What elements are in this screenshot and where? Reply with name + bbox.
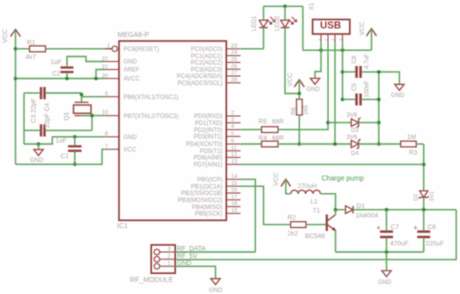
svg-text:MEGA8-P: MEGA8-P bbox=[118, 32, 150, 39]
svg-text:PB2(SS/OC1B): PB2(SS/OC1B) bbox=[181, 191, 222, 197]
svg-text:PD0(RXD): PD0(RXD) bbox=[194, 114, 222, 120]
power VCC symbol (charge pump) bbox=[273, 172, 291, 194]
node junction D+ row bbox=[333, 142, 337, 146]
svg-text:27: 27 bbox=[231, 71, 237, 77]
resistor R6 1k5 bbox=[292, 94, 310, 145]
wire XTAL2 (pin10) bbox=[82, 115, 106, 117]
node junction XTAL2-C4 bbox=[90, 114, 94, 118]
svg-text:C8: C8 bbox=[352, 55, 358, 63]
inductor L1 270uH bbox=[291, 183, 321, 206]
wire PD7 to right column bbox=[241, 163, 424, 165]
diode D1 1N4004 bbox=[336, 203, 457, 219]
svg-text:C3 22pF: C3 22pF bbox=[31, 98, 38, 123]
svg-text:PB6(XTAL1/TOSC1): PB6(XTAL1/TOSC1) bbox=[124, 95, 179, 101]
svg-text:PD1(TXD): PD1(TXD) bbox=[195, 121, 223, 127]
svg-text:12: 12 bbox=[231, 152, 237, 158]
pin 1 inversion circle bbox=[112, 46, 117, 51]
pin names left bbox=[124, 47, 179, 154]
svg-text:1: 1 bbox=[107, 43, 110, 49]
node junctions C8/C5 left bbox=[341, 70, 345, 74]
pin numbers left bbox=[102, 43, 110, 149]
svg-text:GND: GND bbox=[307, 87, 321, 93]
svg-text:3: 3 bbox=[231, 117, 234, 123]
svg-text:9: 9 bbox=[105, 91, 108, 97]
wire emitter ground rail bbox=[336, 251, 424, 253]
wire L1 to collector node bbox=[320, 194, 335, 210]
svg-text:470uF: 470uF bbox=[390, 240, 408, 247]
svg-text:RF_MODULE: RF_MODULE bbox=[130, 277, 174, 284]
pin numbers right bbox=[231, 43, 237, 214]
capacitor C5 100nF bbox=[343, 80, 379, 105]
node junction LED2 top bbox=[283, 5, 287, 9]
svg-text:100nF: 100nF bbox=[365, 80, 371, 97]
svg-text:PB3(MOSI/OC2): PB3(MOSI/OC2) bbox=[178, 198, 223, 204]
svg-text:RF_DATA: RF_DATA bbox=[177, 246, 206, 253]
wire pin23 to LED1 bbox=[241, 48, 264, 50]
svg-text:R6: R6 bbox=[292, 107, 298, 115]
svg-text:2: 2 bbox=[168, 254, 171, 260]
svg-text:PD5(T1): PD5(T1) bbox=[200, 149, 223, 155]
resistor R2 2k2 bbox=[288, 215, 327, 238]
svg-text:PD4(XCK/T0): PD4(XCK/T0) bbox=[186, 142, 223, 148]
svg-text:8: 8 bbox=[105, 131, 108, 137]
wire VCC main left vertical bbox=[15, 31, 17, 165]
ground symbol (RF module) bbox=[209, 279, 223, 294]
svg-text:PD2(INT0): PD2(INT0) bbox=[194, 128, 223, 134]
wire AREF drop bbox=[96, 70, 105, 79]
svg-text:4: 4 bbox=[231, 124, 234, 130]
resistor R3 1M bbox=[401, 134, 424, 157]
svg-text:25: 25 bbox=[231, 57, 237, 63]
svg-text:GND: GND bbox=[177, 260, 192, 267]
svg-text:22: 22 bbox=[102, 56, 108, 62]
node junction D- row bbox=[326, 121, 330, 125]
svg-text:Charge pump: Charge pump bbox=[322, 175, 365, 182]
wire PB0 to RF_DATA bbox=[241, 179, 256, 252]
svg-text:VCC: VCC bbox=[273, 172, 280, 186]
svg-text:C5: C5 bbox=[352, 83, 358, 91]
svg-text:PD6(AIN0): PD6(AIN0) bbox=[193, 156, 222, 162]
svg-text:GND: GND bbox=[378, 280, 392, 286]
svg-text:Q1: Q1 bbox=[64, 111, 71, 120]
svg-text:15: 15 bbox=[231, 181, 237, 187]
wire AVCC/AREF rail bbox=[16, 78, 106, 80]
svg-text:68R: 68R bbox=[272, 135, 284, 142]
svg-text:5: 5 bbox=[231, 131, 234, 137]
svg-text:PB5(SCK): PB5(SCK) bbox=[195, 212, 223, 218]
svg-text:14: 14 bbox=[231, 174, 237, 180]
svg-text:19: 19 bbox=[231, 208, 237, 214]
svg-text:USB: USB bbox=[320, 21, 341, 32]
svg-text:+: + bbox=[414, 225, 418, 232]
ground symbol (caps) bbox=[391, 84, 405, 99]
capacitor C7 470uF bbox=[377, 210, 409, 252]
wire XTAL1 (pin9) bbox=[82, 96, 106, 98]
node junction VBUS rail bbox=[319, 48, 323, 52]
svg-text:2k2: 2k2 bbox=[288, 231, 299, 238]
wire output loop to RF_5V bbox=[175, 210, 456, 260]
svg-text:LED1: LED1 bbox=[252, 15, 258, 31]
svg-text:T1: T1 bbox=[313, 208, 321, 215]
pin stubs right bbox=[226, 49, 240, 214]
svg-text:R2: R2 bbox=[288, 215, 297, 222]
svg-text:PB1(OC1A): PB1(OC1A) bbox=[191, 184, 223, 190]
svg-text:RF_5V: RF_5V bbox=[177, 253, 198, 260]
svg-text:13: 13 bbox=[231, 159, 237, 165]
svg-text:3V6: 3V6 bbox=[347, 113, 358, 119]
power VCC symbol (top-left) bbox=[2, 29, 21, 43]
svg-text:L1: L1 bbox=[311, 199, 319, 206]
svg-text:1uF: 1uF bbox=[51, 59, 62, 66]
resistor R4 68R bbox=[241, 135, 352, 147]
svg-text:D3: D3 bbox=[351, 128, 359, 134]
node junction R1-VCC bbox=[14, 47, 18, 51]
svg-text:PB0(ICP): PB0(ICP) bbox=[197, 178, 222, 184]
svg-text:D2: D2 bbox=[414, 194, 420, 201]
node collector junction bbox=[334, 208, 338, 212]
capacitor C2 1uF bbox=[51, 57, 106, 81]
node junction AREF-AVCC rail bbox=[94, 77, 98, 81]
svg-text:270uH: 270uH bbox=[298, 183, 317, 190]
capacitor C1 1uF bbox=[56, 135, 82, 166]
node junction AVCC rail bbox=[14, 77, 18, 81]
wire LED rail to USB rail corner bbox=[302, 6, 304, 50]
svg-text:AREF: AREF bbox=[124, 68, 140, 74]
svg-text:+: + bbox=[377, 225, 381, 232]
svg-text:11: 11 bbox=[231, 145, 237, 151]
diode LED2 bbox=[275, 6, 299, 93]
pin stubs left bbox=[105, 49, 119, 150]
svg-text:R1: R1 bbox=[27, 40, 36, 47]
svg-text:1N4004: 1N4004 bbox=[356, 213, 379, 220]
svg-text:PD3(INT1): PD3(INT1) bbox=[194, 135, 223, 141]
wire GND vertical (caps/zeners) bbox=[378, 72, 380, 144]
wire LED top rail bbox=[264, 5, 303, 7]
ground symbol (crystal) bbox=[30, 144, 44, 164]
svg-text:17: 17 bbox=[231, 194, 237, 200]
wire PB1 to R2 bbox=[241, 186, 291, 224]
svg-text:6: 6 bbox=[231, 139, 234, 145]
svg-text:2: 2 bbox=[231, 111, 234, 117]
capacitor C4 22pF bbox=[24, 103, 92, 137]
svg-text:PB7(XTAL2/TOSC2): PB7(XTAL2/TOSC2) bbox=[124, 114, 179, 120]
node junctions GND vertical bbox=[377, 70, 381, 74]
svg-text:C2: C2 bbox=[52, 71, 61, 78]
wire RF_DATA bbox=[175, 251, 255, 253]
wire RF GND bbox=[175, 266, 215, 278]
svg-text:PB4(MISO): PB4(MISO) bbox=[192, 205, 223, 211]
transistor T1 BC548 bbox=[305, 208, 336, 253]
svg-text:PC2(ADC2): PC2(ADC2) bbox=[191, 61, 223, 67]
svg-text:VCC: VCC bbox=[124, 148, 137, 154]
power VCC symbol (USB) bbox=[359, 21, 377, 50]
wire USB pin1 to GND bbox=[315, 43, 321, 78]
svg-text:GND: GND bbox=[124, 60, 138, 66]
svg-text:4.7uF: 4.7uF bbox=[365, 53, 371, 69]
node junction GND rail bbox=[37, 142, 41, 146]
svg-text:PD7(AIN1): PD7(AIN1) bbox=[193, 163, 222, 169]
pin names right bbox=[177, 47, 223, 218]
wire VBUS rail bbox=[303, 49, 372, 51]
svg-text:68R: 68R bbox=[272, 119, 284, 126]
ground symbol (charge pump) bbox=[378, 252, 392, 286]
connector X1 USB bbox=[310, 2, 350, 43]
wire USB VBUS to caps bbox=[342, 43, 344, 99]
node junction VCC-R6 bbox=[298, 92, 302, 96]
svg-text:7: 7 bbox=[105, 144, 108, 150]
resistor R5 68R bbox=[241, 119, 329, 133]
capacitor C8 4.7uF bbox=[343, 53, 379, 78]
capacitor C3 22pF bbox=[24, 87, 82, 123]
svg-text:C7: C7 bbox=[391, 224, 400, 231]
svg-text:R5: R5 bbox=[259, 119, 268, 126]
svg-text:C1: C1 bbox=[61, 153, 70, 160]
svg-text:3V6: 3V6 bbox=[347, 135, 358, 141]
svg-text:4k7: 4k7 bbox=[26, 54, 37, 61]
wire right column down bbox=[423, 144, 425, 191]
power VCC symbol (R6) bbox=[287, 72, 304, 93]
svg-text:1k5: 1k5 bbox=[304, 105, 310, 115]
diode D4 zener 3V6 bbox=[347, 135, 401, 157]
svg-text:LED2: LED2 bbox=[275, 15, 281, 31]
ground symbol (USB) bbox=[307, 78, 321, 93]
capacitor C6 220uF bbox=[414, 210, 444, 252]
svg-text:GND: GND bbox=[30, 158, 44, 164]
svg-text:C6: C6 bbox=[428, 224, 437, 231]
op IC1 MEGA8-P box bbox=[117, 32, 226, 230]
svg-text:3: 3 bbox=[168, 247, 171, 253]
wire crystal loop left vertical bbox=[23, 93, 25, 144]
diode D3 zener 3V6 bbox=[328, 113, 379, 134]
svg-text:24: 24 bbox=[231, 50, 237, 56]
svg-text:18: 18 bbox=[231, 201, 237, 207]
svg-text:X1: X1 bbox=[310, 2, 316, 10]
svg-text:PC6(RESET): PC6(RESET) bbox=[124, 47, 160, 53]
svg-text:26: 26 bbox=[231, 64, 237, 70]
svg-text:PC3(ADC3): PC3(ADC3) bbox=[191, 67, 223, 73]
crystal Q1 bbox=[64, 93, 92, 121]
svg-text:AVCC: AVCC bbox=[124, 77, 141, 83]
svg-text:PC5(ADC5/SCL): PC5(ADC5/SCL) bbox=[177, 81, 222, 87]
wire VCC bottom rail to pin7 bbox=[16, 149, 106, 164]
node junction GND rail (pump) bbox=[385, 250, 389, 254]
svg-text:D4: D4 bbox=[351, 151, 359, 157]
resistor R1 4k7 bbox=[16, 40, 112, 61]
node junctions D1 output rail bbox=[385, 208, 389, 212]
wire USB D+ down bbox=[334, 43, 336, 144]
svg-text:10: 10 bbox=[102, 110, 108, 116]
svg-text:1uF: 1uF bbox=[56, 138, 67, 145]
svg-text:220uF: 220uF bbox=[426, 240, 444, 247]
svg-text:21: 21 bbox=[102, 64, 108, 70]
svg-text:VCC: VCC bbox=[2, 29, 9, 43]
svg-text:PC0(ADC0): PC0(ADC0) bbox=[191, 47, 223, 53]
node junction PD7 line bbox=[422, 163, 426, 167]
svg-text:R4: R4 bbox=[259, 135, 268, 142]
svg-text:GND: GND bbox=[124, 135, 138, 141]
svg-text:PC1(ADC1): PC1(ADC1) bbox=[191, 54, 223, 60]
svg-text:D1: D1 bbox=[357, 203, 366, 210]
svg-text:16: 16 bbox=[231, 188, 237, 194]
svg-text:VCC: VCC bbox=[359, 21, 366, 35]
diode LED1 bbox=[252, 6, 275, 49]
svg-text:1M: 1M bbox=[407, 134, 416, 141]
svg-text:GND: GND bbox=[209, 288, 223, 294]
svg-text:23: 23 bbox=[231, 43, 237, 49]
svg-text:28: 28 bbox=[231, 77, 237, 83]
svg-text:R3: R3 bbox=[409, 149, 418, 156]
svg-text:22pF C4: 22pF C4 bbox=[44, 103, 51, 128]
diode D2 zener 5V1 bbox=[414, 191, 436, 210]
connector RF_MODULE bbox=[130, 245, 175, 284]
svg-text:GND: GND bbox=[391, 93, 405, 99]
wire GND branch right bbox=[379, 72, 400, 85]
node junction R6-R4 row bbox=[298, 142, 302, 146]
svg-text:VCC: VCC bbox=[287, 72, 294, 86]
svg-text:5V1: 5V1 bbox=[430, 191, 436, 201]
svg-text:PC4(ADC4/SDA): PC4(ADC4/SDA) bbox=[177, 74, 223, 80]
svg-text:IC1: IC1 bbox=[117, 223, 128, 230]
svg-text:BC548: BC548 bbox=[305, 233, 325, 240]
svg-text:20: 20 bbox=[102, 73, 108, 79]
svg-text:1: 1 bbox=[168, 261, 171, 267]
wire USB D- down bbox=[327, 43, 329, 123]
wire GND crystal rail bbox=[24, 137, 105, 144]
